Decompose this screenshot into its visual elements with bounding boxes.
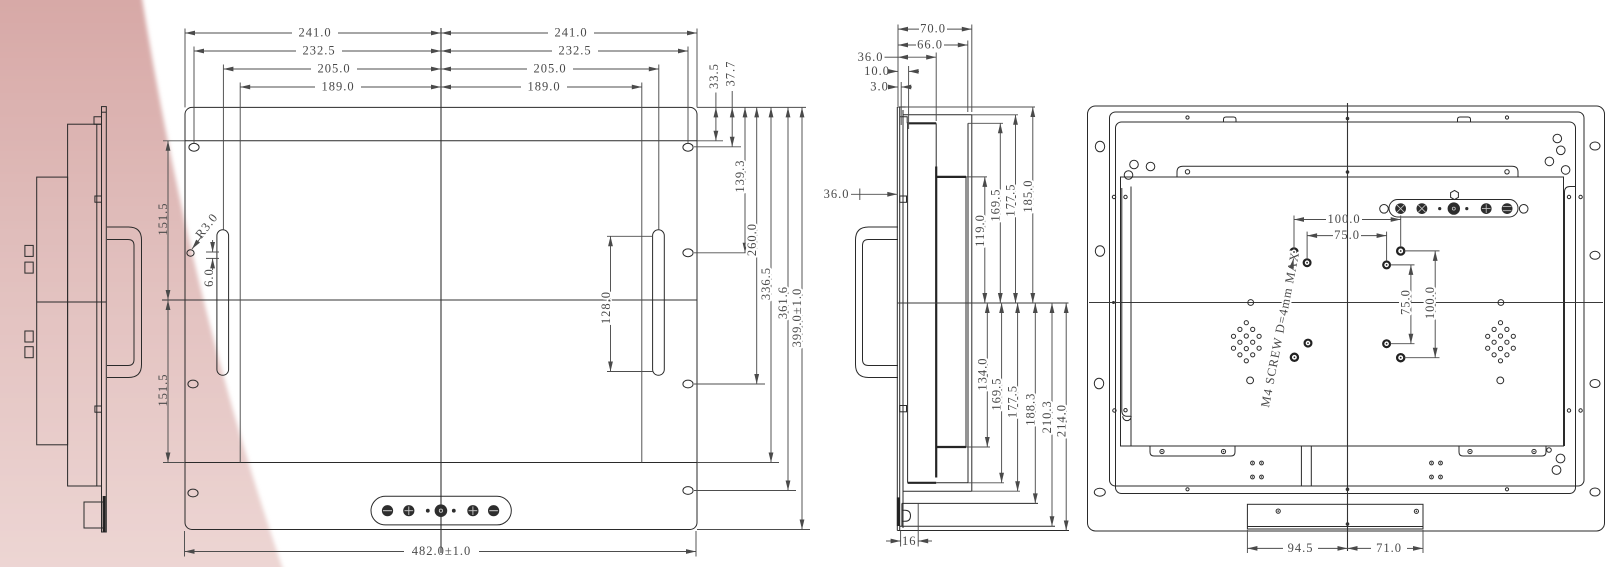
rear top-left circle c xyxy=(1124,171,1133,180)
rear bottom-right circle a xyxy=(1556,454,1565,463)
svg-text:189.0: 189.0 xyxy=(321,80,354,94)
svg-text:336.5: 336.5 xyxy=(759,267,773,300)
svg-text:205.0: 205.0 xyxy=(533,62,566,76)
side-B ext 177.5 bottom xyxy=(972,490,1020,492)
side-B ext 177.5 top xyxy=(972,114,1018,116)
svg-text:185.0: 185.0 xyxy=(1021,179,1035,212)
side-A rear clip 2a xyxy=(25,331,33,342)
svg-text:232.5: 232.5 xyxy=(302,44,335,58)
svg-text:177.5: 177.5 xyxy=(1004,183,1018,216)
rear top clip left xyxy=(1224,117,1237,122)
side-B bottom line 2 xyxy=(903,490,972,492)
rear top clip right xyxy=(1458,117,1471,122)
rear dims group xyxy=(1247,212,1439,555)
ext for 151.5 top xyxy=(163,140,185,142)
rear left strip notch xyxy=(1123,416,1132,420)
rear top-right circle c xyxy=(1545,157,1554,166)
front top bracket line xyxy=(185,140,697,142)
side-B body top thick xyxy=(908,122,937,124)
side-A handle inner xyxy=(107,240,134,366)
front button 1 xyxy=(382,505,393,516)
rear screw pair TR b xyxy=(1579,195,1582,198)
circle below grid left xyxy=(1247,377,1254,384)
rear bottom tab right screw 1 xyxy=(1468,449,1472,453)
ext oval4 right xyxy=(694,490,796,492)
rear dim 94.5 / 71.0 extensions xyxy=(1247,530,1423,553)
svg-text:361.6: 361.6 xyxy=(776,286,790,319)
front oval hole bottom-left xyxy=(188,489,198,497)
dim 139.3 vertical xyxy=(733,107,747,252)
side-B ext 119.0 top xyxy=(966,176,987,178)
side-A rear clip 1b xyxy=(25,262,33,273)
ext bracket1 right xyxy=(697,140,723,142)
rear pill dot left xyxy=(1438,207,1441,210)
side-B ext 169.5 top xyxy=(968,122,1003,124)
dim 399.0±1.0 vertical xyxy=(790,107,804,529)
dim 70.0 extension right xyxy=(971,25,973,113)
front oval hole mid-right xyxy=(683,380,693,388)
rear frame oval left 3 xyxy=(1094,378,1103,389)
rear frame oval left 1 xyxy=(1095,141,1104,152)
dim 189.0 right extension line xyxy=(641,83,643,463)
svg-text:169.5: 169.5 xyxy=(990,377,1004,410)
rear bottom-right small circle xyxy=(1547,448,1552,453)
front panel outer rectangle xyxy=(185,107,697,529)
svg-text:10.0: 10.0 xyxy=(864,64,890,78)
rear dim 71.0 xyxy=(1348,541,1424,555)
svg-text:151.5: 151.5 xyxy=(156,373,170,406)
side-B bracket left vertical xyxy=(901,503,903,526)
side-A front bezel plate xyxy=(102,107,107,532)
side-B dim 169.5 bottom xyxy=(990,303,1004,483)
side-A plate clip lower xyxy=(95,406,102,412)
rear inner panel second left edge xyxy=(1130,187,1132,447)
rear pill dot right xyxy=(1465,207,1468,210)
dim 241.0 right extension line xyxy=(696,29,698,108)
side-B bezel plate line 1 xyxy=(896,107,898,531)
rear bottom-right circle b xyxy=(1552,466,1561,475)
side-B handle inner xyxy=(863,240,899,366)
svg-text:119.0: 119.0 xyxy=(973,214,987,247)
right side stack: top edge extension xyxy=(697,106,806,108)
svg-text:214.0: 214.0 xyxy=(1054,404,1068,437)
side-B dim 210.3 xyxy=(1040,303,1054,526)
speaker grid right xyxy=(1486,321,1516,363)
rear top screw right xyxy=(1505,116,1508,119)
rear frame oval right 1 xyxy=(1590,142,1600,150)
rear 2x2 dots right xyxy=(1430,461,1443,479)
svg-text:66.0: 66.0 xyxy=(917,38,943,52)
side-B plate clip lower xyxy=(900,406,907,412)
side-B top edge ext to 185 xyxy=(906,106,1036,108)
side-B handle outer xyxy=(856,227,899,378)
dim 232.5 left extension line xyxy=(193,47,195,144)
side-B LCD right vertical xyxy=(965,177,967,447)
rear frame oval right bottom xyxy=(1590,488,1600,496)
rear horizontal centerline xyxy=(1089,302,1603,304)
front led dot left xyxy=(426,509,430,513)
circle on centerline left xyxy=(1248,300,1254,306)
dim line 189.0 left xyxy=(240,80,441,94)
ext oval3 right xyxy=(694,383,765,385)
rear bottom screw right xyxy=(1505,488,1508,491)
front vertical centerline xyxy=(440,28,442,553)
side-B bottom line + 214.0 ext xyxy=(897,530,1069,532)
dim 232.5 right extension line xyxy=(687,47,689,144)
rear top sliver plate xyxy=(1177,166,1518,177)
svg-text:482.0±1.0: 482.0±1.0 xyxy=(412,544,472,558)
rear screw pair BL b xyxy=(1124,409,1127,412)
side-B bracket P-notch xyxy=(902,510,911,521)
rear screw pair TL b xyxy=(1124,195,1127,198)
front oval hole upper-right xyxy=(683,249,693,257)
dim line 232.5 right xyxy=(441,44,688,58)
svg-text:241.0: 241.0 xyxy=(554,26,587,40)
dim 336.5 vertical xyxy=(759,107,773,462)
front button 3 centre xyxy=(435,504,448,517)
dim 241.0 left extension line xyxy=(184,29,186,108)
side-A bezel plate cap line xyxy=(102,111,107,113)
side-B ext 134 bottom xyxy=(966,446,990,448)
dim 482.0 right extension xyxy=(695,531,697,557)
front oval hole mid-left xyxy=(188,380,198,388)
rear dim 100.0 vertical xyxy=(1405,251,1440,358)
dim 66.0 extension right xyxy=(967,41,969,113)
rear frame oval left bottom xyxy=(1094,488,1105,496)
rear frame oval right 3 xyxy=(1590,380,1600,388)
pink gradient background swoosh xyxy=(0,0,285,567)
svg-text:36.0: 36.0 xyxy=(824,187,850,201)
rear pill side lug left xyxy=(1380,205,1389,214)
svg-text:94.5: 94.5 xyxy=(1288,541,1314,555)
front horizontal centerline xyxy=(162,299,697,301)
centerline dot 4 xyxy=(1346,522,1350,526)
svg-text:M4 SCREW D=4mm MAX: M4 SCREW D=4mm MAX xyxy=(1258,250,1302,408)
svg-text:232.5: 232.5 xyxy=(558,44,591,58)
rear bottom tab left screw 1 xyxy=(1160,449,1164,453)
rear pill side lug right xyxy=(1519,205,1528,214)
svg-text:6.0: 6.0 xyxy=(202,268,216,287)
side-B LCD vertical thick xyxy=(935,167,937,478)
dim line 241.0 right xyxy=(441,26,697,40)
dim 6.0 ticks and label xyxy=(202,240,219,287)
dim line 205.0 right xyxy=(441,62,659,76)
side-B bezel plate line 2 xyxy=(899,107,901,531)
rear right inner strip xyxy=(1565,187,1576,447)
svg-text:205.0: 205.0 xyxy=(317,62,350,76)
side-A centerline xyxy=(37,301,107,303)
circle below grid right xyxy=(1497,377,1504,384)
label R3.0 with leader xyxy=(192,210,221,249)
centerline dot 2 xyxy=(1346,170,1350,174)
svg-text:188.3: 188.3 xyxy=(1023,393,1037,426)
side-A rear clip 1a xyxy=(25,245,33,256)
side-B bottom bracket top line + 188.3 ext xyxy=(902,502,1038,504)
side-B dim 214.0 xyxy=(1054,303,1068,531)
vesa screw BL100 xyxy=(1291,354,1298,361)
rear bottom tab left xyxy=(1150,446,1235,456)
rear pill screw 5 xyxy=(1502,203,1513,214)
rear bottom screw left xyxy=(1186,488,1189,491)
dim 128.0: extension top xyxy=(607,235,653,237)
ext for 151.5 bottom xyxy=(163,462,185,464)
rear dim 75.0 horizontal xyxy=(1307,228,1387,261)
rear bottom connector plate xyxy=(1247,504,1423,529)
dim line 189.0 right xyxy=(441,80,642,94)
rear dim 94.5 xyxy=(1247,541,1347,555)
side-A top step xyxy=(94,117,102,125)
side-B body bottom thick xyxy=(908,482,968,484)
rear 2x2 dots left xyxy=(1251,461,1264,479)
rear bottom tab right screw 2 xyxy=(1532,449,1536,453)
vesa screw TR100 xyxy=(1397,247,1404,254)
svg-text:139.3: 139.3 xyxy=(733,159,747,192)
dim 361.6 vertical xyxy=(776,107,790,490)
rear dim 100.0 horizontal xyxy=(1294,212,1401,249)
rear sliver screw right xyxy=(1505,170,1509,174)
side-B body right edge inner xyxy=(967,123,969,483)
dim 482.0 left extension xyxy=(184,531,186,557)
dim line 66.0 xyxy=(898,38,968,52)
side-A body inner line xyxy=(96,124,98,486)
dim 151.5 lower: line xyxy=(156,300,170,463)
rear cover plate rect2 xyxy=(1110,112,1585,486)
rear bottom plate screw right xyxy=(1414,509,1418,513)
svg-text:36.0: 36.0 xyxy=(858,50,884,64)
vesa screw BR75 xyxy=(1383,340,1390,347)
dim 128.0: extension bottom xyxy=(607,371,653,373)
rear top-right circle a xyxy=(1553,134,1562,143)
centerline dot left xyxy=(1112,301,1115,304)
side-A rear box xyxy=(37,177,68,445)
rear sliver screw left xyxy=(1185,170,1189,174)
rear top screw left xyxy=(1186,116,1189,119)
side-B plate line 3 xyxy=(902,110,904,528)
side-B plate dark lower segment xyxy=(897,497,900,526)
rear left inner strip xyxy=(1122,188,1131,416)
dim 205.0 right extension line xyxy=(658,65,660,230)
side-B body left edge xyxy=(907,123,909,483)
dim 260.0 vertical xyxy=(745,107,759,384)
front oval hole bottom-right xyxy=(683,487,693,495)
side-B ext 169.5 bottom xyxy=(968,482,1004,484)
front left slot xyxy=(217,230,229,375)
rear pill screw 1 xyxy=(1395,203,1406,214)
svg-text:189.0: 189.0 xyxy=(527,80,560,94)
svg-text:16: 16 xyxy=(902,534,917,548)
side-B dim 177.5 top xyxy=(1004,115,1018,303)
circle on centerline right xyxy=(1498,300,1504,306)
vesa screw TL100 xyxy=(1290,248,1297,255)
rear frame oval right 2 xyxy=(1590,251,1600,259)
rear pill screw 3 centre xyxy=(1448,202,1460,214)
dim line 232.5 left xyxy=(194,44,441,58)
side-B plate clip upper xyxy=(900,196,907,202)
rear label M4 SCREW xyxy=(1258,250,1302,408)
side-B dim 119.0 xyxy=(973,177,987,303)
vesa screw BR100 xyxy=(1397,354,1404,361)
rear bottom tab left screw 2 xyxy=(1221,449,1225,453)
dim line 205.0 left xyxy=(223,62,441,76)
VESA screws group xyxy=(1290,247,1404,361)
vesa screw TL75 xyxy=(1304,259,1311,266)
dim line 36.0 top xyxy=(858,50,937,64)
rear top-left circle a xyxy=(1130,160,1139,169)
rear screw pair TR a xyxy=(1567,195,1570,198)
side-B body right edge outer xyxy=(971,115,973,491)
dim line 241.0 left xyxy=(185,26,441,40)
ext oval2 right xyxy=(694,252,753,254)
dim line 10.0 xyxy=(864,64,919,129)
svg-text:75.0: 75.0 xyxy=(1334,228,1360,242)
dim 189.0 left extension line xyxy=(239,83,241,463)
svg-text:3.0: 3.0 xyxy=(870,80,889,94)
svg-text:75.0: 75.0 xyxy=(1398,289,1412,315)
rear screw pair BR a xyxy=(1567,409,1570,412)
dim 36.0 left (handle) xyxy=(824,187,898,201)
centerline dot 3 xyxy=(1346,488,1350,492)
rear connector pill group xyxy=(1380,190,1528,217)
side-A handle outer xyxy=(107,227,142,378)
vesa screw BL75 xyxy=(1305,340,1312,347)
rear bottom plate screw left xyxy=(1276,509,1280,513)
rear inner panel xyxy=(1121,177,1564,446)
svg-text:71.0: 71.0 xyxy=(1376,541,1402,555)
svg-text:260.0: 260.0 xyxy=(745,223,759,256)
dim 36.0 top extension xyxy=(935,53,937,122)
front oval hole top-left xyxy=(189,143,199,151)
dim line 70.0 xyxy=(898,22,972,36)
rear bottom plate inner line xyxy=(1247,526,1423,528)
svg-text:100.0: 100.0 xyxy=(1423,286,1437,319)
side-B LCD bottom thick xyxy=(936,446,966,448)
side-B top step xyxy=(900,117,908,124)
front bottom bracket line xyxy=(185,462,697,464)
svg-text:169.5: 169.5 xyxy=(988,188,1002,221)
rear outer frame xyxy=(1088,106,1605,531)
front button 5 xyxy=(488,505,499,516)
rear screw pair BL a xyxy=(1113,409,1116,412)
dim 70.0 extension left xyxy=(897,25,899,107)
side-A bottom connector box xyxy=(84,502,103,528)
rear screw pair BR b xyxy=(1579,409,1582,412)
rear centre stem xyxy=(1301,446,1311,486)
centerline dot 1 xyxy=(1346,117,1350,121)
rear pill screw 4 xyxy=(1481,203,1492,214)
svg-text:177.5: 177.5 xyxy=(1006,385,1020,418)
svg-text:33.5: 33.5 xyxy=(707,63,721,89)
side-A rear clip 2b xyxy=(25,347,33,358)
svg-text:70.0: 70.0 xyxy=(920,22,946,36)
dim line 3.0 xyxy=(870,80,912,125)
side-A bezel dark lower segment xyxy=(103,496,106,532)
side-A plate clip upper xyxy=(95,196,102,202)
side-B LCD vertical thin upper xyxy=(935,123,937,166)
ext oval1 right xyxy=(694,146,741,148)
rear pill hex nut top xyxy=(1451,190,1459,199)
front button pill xyxy=(371,496,511,525)
side-B dim 169.5 top xyxy=(988,123,1002,303)
front small hole R3.0 xyxy=(187,250,194,256)
rear vertical centerline xyxy=(1347,103,1349,551)
rear pill screw 2 xyxy=(1417,203,1428,214)
svg-text:37.7: 37.7 xyxy=(724,61,738,87)
front oval hole top-right xyxy=(683,143,693,151)
side-B bezel plate top cap xyxy=(897,106,905,108)
dim line 482.0±1.0 xyxy=(185,544,697,558)
side-B LCD top thick xyxy=(936,176,966,178)
side-B dim 185.0 xyxy=(1021,107,1035,303)
speaker grid left xyxy=(1231,321,1261,363)
side-B top line 2 xyxy=(903,114,972,116)
svg-text:134.0: 134.0 xyxy=(975,357,989,390)
dim 205.0 left extension line xyxy=(222,65,224,230)
vesa screw TR75 xyxy=(1383,262,1390,269)
front led dot right xyxy=(452,509,456,513)
side-B dim 188.3 xyxy=(1023,303,1037,503)
side-A chassis body xyxy=(68,124,102,486)
ext bottom edge right xyxy=(697,529,810,531)
dim 16 label and arrows xyxy=(886,534,932,548)
rear top-right circle d xyxy=(1561,166,1570,175)
side-B dim 177.5 bottom xyxy=(1006,303,1020,491)
front button 4 xyxy=(467,505,478,516)
dim 128.0 vertical line xyxy=(599,236,613,371)
svg-text:100.0: 100.0 xyxy=(1327,212,1360,226)
front button 2 xyxy=(403,505,414,516)
rear cover plate rect3 xyxy=(1116,122,1576,494)
rear frame oval left 2 xyxy=(1095,246,1104,257)
rear screw pair TL a xyxy=(1112,195,1115,198)
front right slot xyxy=(653,230,665,375)
rear dim 75.0 vertical xyxy=(1391,265,1415,344)
svg-text:128.0: 128.0 xyxy=(599,291,613,324)
svg-text:399.0±1.0: 399.0±1.0 xyxy=(790,288,804,348)
side-B bottom bracket bottom line + 210.3 ext xyxy=(900,525,1055,527)
rear top-left circle b xyxy=(1146,162,1155,171)
dim 16: extensions xyxy=(901,503,919,546)
svg-text:151.5: 151.5 xyxy=(156,202,170,235)
dim 33.5 vertical xyxy=(707,63,721,141)
dim 37.7 vertical xyxy=(724,61,738,147)
side-B centerline xyxy=(897,302,1069,304)
svg-text:241.0: 241.0 xyxy=(298,26,331,40)
dim 151.5 upper: line xyxy=(156,141,170,300)
ext bracket2 right xyxy=(697,462,779,464)
side-B dim 134.0 xyxy=(975,303,989,447)
rear bottom tab right xyxy=(1459,446,1546,456)
rear top-right circle b xyxy=(1557,146,1566,155)
rear connector pill outline xyxy=(1389,200,1518,218)
svg-text:210.3: 210.3 xyxy=(1040,400,1054,433)
